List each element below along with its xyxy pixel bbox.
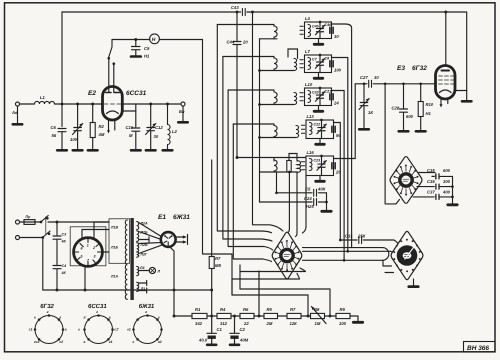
svg-text:600: 600: [443, 168, 451, 173]
inductor L13: [310, 123, 313, 135]
wire B5 output to detector: [334, 84, 356, 159]
wire S2 to C37: [413, 196, 453, 198]
svg-text:40К: 40К: [317, 187, 326, 192]
wire rectifier plate 1: [82, 230, 109, 240]
rotary switch S1b band contacts: [276, 241, 299, 270]
resistor R8 potentiometer: [311, 313, 325, 318]
ground A2: [182, 106, 184, 121]
svg-text:к1: к1: [127, 328, 131, 332]
resistor R2: [92, 104, 94, 150]
ground S3: [413, 279, 415, 286]
inductor L1: [35, 101, 55, 104]
IF transformer L7 box: [305, 55, 332, 73]
wire row3 top: [228, 89, 274, 91]
capacitor C35: [432, 174, 439, 179]
capacitor С45 trimmer: [315, 22, 324, 39]
wire link row5: [289, 154, 297, 162]
svg-text:6Г32: 6Г32: [412, 65, 427, 72]
winding L2V: [137, 243, 139, 252]
svg-text:Н1: Н1: [144, 54, 150, 59]
svg-text:Н: Н: [152, 37, 156, 43]
svg-text:4К: 4К: [61, 271, 67, 275]
svg-text:Л3: Л3: [140, 287, 145, 291]
tube E3 cathode: [440, 90, 452, 93]
wire L2A to E1: [139, 223, 161, 237]
capacitor С46: [330, 27, 333, 33]
svg-text:R9: R9: [340, 307, 346, 312]
capacitor C2 electrolytic: [230, 316, 239, 333]
resistor R7: [209, 257, 214, 269]
wire racetrack end arc: [383, 248, 389, 261]
wire E1 cathode drop: [170, 247, 175, 316]
svg-text:R8: R8: [314, 307, 320, 312]
capacitor fixed: [332, 163, 335, 169]
wire ground bus bottom: [43, 289, 212, 291]
wire C5 line: [277, 192, 327, 194]
core dashes L10: [300, 93, 303, 101]
terminal mains N: [16, 236, 20, 240]
wire S2 to C35: [419, 173, 453, 179]
motor H symbol: [150, 34, 160, 44]
transformer core: [130, 218, 133, 300]
terminal mains L: [16, 220, 20, 224]
wire L16 secondary to detector switch: [303, 176, 307, 234]
svg-text:ВН 366: ВН 366: [467, 345, 489, 352]
svg-text:600: 600: [406, 114, 414, 119]
ground L10 box: [318, 106, 320, 111]
rotary switch S3 volume rotor disk: [397, 245, 418, 266]
ground L7 box: [318, 73, 320, 78]
ground R10: [416, 130, 426, 133]
inductor L16: [310, 159, 313, 171]
wire row3 bottom: [260, 104, 295, 106]
wire rectifier cathode down: [84, 266, 86, 290]
svg-text:С6: С6: [51, 125, 57, 130]
rotary switch S3 volume contacts: [419, 258, 421, 260]
ground L4 box: [318, 39, 320, 44]
svg-text:L13: L13: [307, 114, 315, 119]
svg-text:с1: с1: [29, 328, 33, 332]
svg-text:С1: С1: [217, 327, 223, 332]
IF transformer L13 box: [306, 120, 334, 139]
svg-text:Л1А: Л1А: [110, 275, 118, 279]
inductor L2: [168, 104, 171, 150]
wire row2 top: [223, 56, 274, 58]
svg-text:С12: С12: [155, 125, 163, 130]
svg-text:с2: с2: [59, 340, 63, 344]
wire S1b lower exits: [232, 265, 306, 295]
wire L14 drop: [276, 172, 278, 193]
wire caps join: [326, 193, 328, 211]
tube E1 6Zh31: [161, 232, 176, 247]
node junction E3 plate: [444, 11, 447, 14]
ground C12: [146, 149, 156, 152]
capacitor C31: [359, 237, 362, 244]
rotary switch S2 tone rotor ring: [400, 174, 412, 186]
inductor L6: [294, 59, 297, 71]
svg-text:к: к: [34, 315, 36, 319]
wire L2B to E1: [139, 232, 161, 240]
svg-text:С22: С22: [314, 123, 321, 127]
svg-text:Л2Б: Л2Б: [140, 231, 148, 235]
wire mains N drop: [42, 238, 44, 291]
svg-text:М8: М8: [215, 263, 221, 268]
svg-text:24: 24: [333, 100, 339, 105]
svg-text:С36: С36: [427, 179, 435, 184]
wire rectifier to HT: [102, 251, 109, 253]
wire B4 output: [334, 123, 341, 241]
svg-text:30: 30: [334, 34, 339, 39]
svg-text:30: 30: [374, 75, 379, 80]
wire mains live to transformer: [57, 221, 109, 223]
svg-text:R6: R6: [243, 307, 249, 312]
svg-text:4М: 4М: [98, 132, 105, 137]
ground A1: [17, 106, 19, 123]
IF transformer L16 box: [306, 156, 334, 176]
lamp L dial: [139, 270, 150, 272]
tube V4 rectifier socket: [74, 238, 103, 267]
svg-text:R10: R10: [426, 102, 434, 107]
terminal A2: [181, 102, 185, 106]
wire row5 top C44 feed: [237, 158, 306, 162]
svg-text:С46: С46: [325, 23, 333, 27]
tube E1 electrodes: [164, 236, 171, 246]
capacitor C26 trimmer: [359, 84, 369, 129]
inductor L9: [294, 93, 297, 105]
svg-text:С21: С21: [325, 89, 332, 93]
wire B+ rail: [174, 316, 358, 322]
wire mains N to switch: [20, 237, 43, 239]
ground R2: [88, 149, 98, 152]
capacitor C10: [132, 104, 140, 150]
wire bus v6 R7 feed: [211, 160, 213, 316]
wire AVC drop: [259, 172, 261, 202]
svg-text:Л1В: Л1В: [110, 226, 118, 230]
wire B1 output: [332, 24, 352, 248]
capacitor C44: [233, 12, 241, 158]
terminal A1 antenna: [16, 102, 20, 106]
capacitor C5: [314, 189, 317, 196]
svg-text:6СС31: 6СС31: [126, 90, 147, 97]
svg-text:а: а: [84, 340, 86, 344]
svg-text:г: г: [59, 315, 61, 319]
tube E2 heater pins: [109, 121, 115, 133]
ground caps: [448, 203, 457, 206]
capacitor C36: [436, 184, 439, 189]
wire bus v4: [233, 124, 271, 262]
svg-text:а': а': [84, 315, 87, 319]
chassis box rectifier: [70, 227, 106, 266]
capacitor C3: [53, 222, 61, 252]
svg-text:С37: С37: [427, 190, 435, 195]
svg-text:3: 3: [94, 255, 96, 259]
resistor R3: [287, 161, 291, 173]
inductor L5: [274, 57, 277, 71]
svg-text:Е3: Е3: [397, 65, 405, 72]
wire E3 grid line: [355, 83, 435, 85]
rotary wafer switch S3 volume outline: [391, 231, 423, 279]
node junctions grid bus: [61, 103, 64, 106]
wire bus v5: [253, 12, 284, 231]
rectifier pins: [74, 238, 102, 266]
svg-text:1М: 1М: [315, 321, 321, 326]
svg-text:2М: 2М: [266, 321, 273, 326]
wire heater switch feed: [112, 40, 232, 296]
svg-text:R2: R2: [99, 124, 105, 129]
capacitor С8: [330, 61, 333, 67]
svg-text:С2: С2: [240, 327, 246, 332]
winding L2A: [137, 222, 139, 230]
ground C9: [131, 55, 141, 58]
ground L16 box: [319, 176, 321, 181]
svg-text:12К: 12К: [290, 321, 298, 326]
capacitor С20 trimmer: [315, 88, 324, 106]
tube socket diagram 6Ж31: [134, 316, 162, 344]
svg-text:Л2Г: Л2Г: [140, 253, 148, 257]
svg-text:L4: L4: [305, 16, 311, 21]
svg-text:25К: 25К: [357, 234, 366, 239]
capacitor С22 trimmer: [317, 120, 326, 139]
svg-text:400: 400: [442, 190, 451, 195]
tube E2 cathode: [107, 111, 119, 114]
winding L4 heater: [137, 266, 139, 275]
svg-text:R7: R7: [215, 256, 221, 261]
svg-text:Н25: Н25: [306, 204, 314, 209]
svg-text:С28: С28: [392, 106, 400, 111]
svg-text:Н1: Н1: [426, 111, 432, 116]
svg-text:2: 2: [92, 246, 95, 250]
wire racetrack lower: [303, 259, 383, 261]
inductor L11: [274, 124, 277, 138]
svg-text:Пр: Пр: [26, 215, 32, 219]
winding L3 taps: [139, 281, 147, 294]
resistor R5: [264, 313, 278, 318]
capacitor C24: [314, 199, 317, 206]
inductor L14: [274, 160, 277, 172]
wire bus v1: [217, 25, 271, 233]
wire row5 bottom: [260, 171, 298, 173]
svg-text:Л2А: Л2А: [140, 222, 148, 226]
ground C10: [131, 149, 141, 152]
svg-text:С24: С24: [304, 196, 312, 201]
svg-text:Ая: Ая: [11, 110, 18, 115]
speaker arrows: [176, 235, 188, 245]
svg-text:6СС31: 6СС31: [88, 303, 107, 310]
wire antenna input: [20, 103, 103, 105]
switch link bar: [45, 217, 47, 234]
resistor R10: [420, 84, 422, 131]
core dashes L7: [300, 60, 303, 68]
svg-text:С27: С27: [360, 75, 368, 80]
capacitor С23 trimmer: [317, 156, 326, 176]
svg-text:а2: а2: [158, 340, 162, 344]
core dashes L13: [302, 125, 305, 133]
svg-text:1К: 1К: [368, 110, 373, 115]
svg-text:L10: L10: [305, 82, 313, 87]
svg-text:Л2В: Л2В: [140, 243, 148, 247]
capacitor C12 trimmer: [146, 104, 156, 150]
svg-text:С9: С9: [144, 46, 150, 51]
ground C26: [359, 128, 369, 131]
svg-text:L16: L16: [307, 150, 315, 155]
inductor L12: [296, 126, 299, 138]
rotary wafer switch S1b band outline: [272, 232, 302, 279]
svg-text:20: 20: [242, 40, 248, 45]
capacitor C4: [53, 252, 61, 290]
svg-text:Бя: Бя: [179, 109, 185, 114]
capacitor С7 trimmer: [315, 55, 324, 73]
svg-text:R5: R5: [267, 307, 273, 312]
ground C6: [57, 149, 67, 152]
svg-text:Л4: Л4: [139, 266, 144, 270]
inductor L7: [308, 58, 311, 70]
inductor L15: [297, 161, 301, 172]
ground C28: [399, 130, 409, 133]
ground E3 cathode: [466, 91, 468, 101]
svg-text:R4: R4: [220, 307, 226, 312]
svg-text:6Ж31: 6Ж31: [173, 214, 190, 221]
svg-text:С31: С31: [345, 234, 353, 239]
inductor L3: [274, 25, 277, 39]
capacitor C6: [58, 129, 66, 150]
svg-text:кс2: кс2: [34, 340, 40, 344]
resistor R6: [240, 313, 254, 318]
svg-text:к: к: [78, 328, 80, 332]
wire R3 to switch: [288, 172, 291, 232]
title box BH 366: [464, 342, 496, 353]
svg-text:100: 100: [70, 137, 78, 142]
inductor L10: [308, 91, 311, 103]
tube E3 grids: [439, 76, 454, 84]
resistor R7b: [287, 313, 301, 318]
svg-text:30: 30: [154, 134, 159, 139]
wire AVC bus: [259, 39, 261, 172]
svg-text:С20: С20: [312, 91, 319, 95]
svg-text:г: г: [47, 310, 49, 314]
node junction top: [251, 11, 254, 14]
capacitor C28: [400, 84, 408, 131]
wire top HT bus: [62, 12, 467, 91]
wire E2 cathode tap: [122, 110, 136, 112]
inductor L8: [274, 90, 277, 105]
wire row1 top: [217, 24, 274, 26]
wire grid bus right: [122, 103, 181, 105]
tube E2 6CC31 envelope: [103, 87, 123, 121]
switch S1a band selector: [109, 40, 114, 93]
svg-text:С8: С8: [325, 56, 330, 60]
svg-text:6Г32: 6Г32: [40, 303, 54, 310]
inductor L4: [308, 25, 311, 37]
wire AM det switch feed: [385, 84, 399, 204]
tube E2 anodes: [106, 92, 119, 94]
tube socket diagram 6СС31: [85, 316, 113, 344]
wire racetrack upper: [303, 247, 383, 249]
IF transformer L4 box: [305, 22, 332, 39]
ground L13 box: [319, 139, 321, 144]
svg-text:г: г: [158, 315, 160, 319]
svg-text:100: 100: [334, 67, 342, 72]
svg-text:R1: R1: [195, 307, 201, 312]
svg-text:Л: Л: [157, 270, 161, 274]
wire B3 output: [332, 91, 345, 261]
wire L2V to E1: [139, 242, 161, 245]
switch mains pole1: [41, 216, 57, 223]
wire E3 plate drop: [445, 12, 447, 66]
wire AF line1: [240, 289, 330, 316]
svg-text:М: М: [129, 133, 133, 138]
wire C31 line: [340, 240, 398, 244]
svg-text:Л1Б: Л1Б: [110, 246, 118, 250]
svg-text:L2: L2: [172, 129, 178, 134]
wire caps common: [452, 176, 454, 204]
svg-text:С23: С23: [314, 159, 321, 163]
resistor R4: [217, 313, 231, 318]
svg-text:С45: С45: [312, 25, 320, 29]
wire row2 bottom: [260, 70, 295, 72]
resistor R9: [336, 313, 350, 318]
svg-text:1: 1: [87, 244, 89, 248]
wire AF line2: [232, 295, 308, 316]
svg-text:L1: L1: [40, 95, 46, 100]
svg-text:С3: С3: [62, 233, 67, 237]
rotary switch S2 tone contacts: [395, 165, 418, 194]
winding tap bar: [139, 237, 149, 242]
tube E3 top cap: [442, 70, 450, 72]
ground B+ end: [353, 321, 362, 324]
resistor R1: [192, 313, 207, 318]
svg-text:С44: С44: [227, 40, 235, 45]
winding L3 heater2: [137, 282, 139, 291]
svg-text:С43: С43: [231, 5, 239, 10]
svg-text:С10: С10: [126, 125, 134, 130]
wire B2 output: [332, 58, 348, 252]
svg-text:22: 22: [243, 321, 249, 326]
wire S2 to C36: [417, 186, 453, 188]
wire bus v2: [223, 57, 272, 242]
svg-text:300: 300: [443, 179, 451, 184]
wire C24 line: [260, 201, 327, 203]
capacitor C9: [132, 40, 141, 56]
tube E3 6G32 envelope: [436, 66, 456, 100]
node junction C43: [236, 11, 239, 14]
wire bus v3: [228, 90, 272, 250]
wire rectifier plate 2: [94, 222, 109, 239]
svg-text:4К: 4К: [61, 240, 67, 244]
transformer primary box: [109, 219, 130, 263]
wire link row2: [288, 49, 298, 59]
capacitor C1 trimmer: [73, 104, 83, 150]
core dashes L4: [300, 26, 303, 34]
wire left HT riser: [61, 12, 63, 127]
svg-text:342: 342: [195, 321, 203, 326]
capacitor C43: [242, 9, 245, 16]
switch mains pole2: [43, 231, 50, 238]
winding L2G: [137, 252, 139, 257]
svg-text:40М: 40М: [239, 338, 249, 343]
svg-text:100: 100: [339, 321, 347, 326]
rotary S3 pointer: [405, 248, 414, 260]
svg-text:г: г: [145, 310, 147, 314]
svg-text:а: а: [65, 328, 67, 332]
wire row4 top: [233, 123, 274, 125]
svg-text:г: г: [96, 310, 98, 314]
svg-text:40,0: 40,0: [198, 338, 208, 343]
rotary switch S1b band rotor ring: [281, 249, 293, 261]
wire S1b drop to rail: [258, 271, 260, 316]
winding L2B: [137, 231, 139, 242]
node junction C9: [134, 38, 137, 41]
capacitor C37: [436, 194, 439, 199]
